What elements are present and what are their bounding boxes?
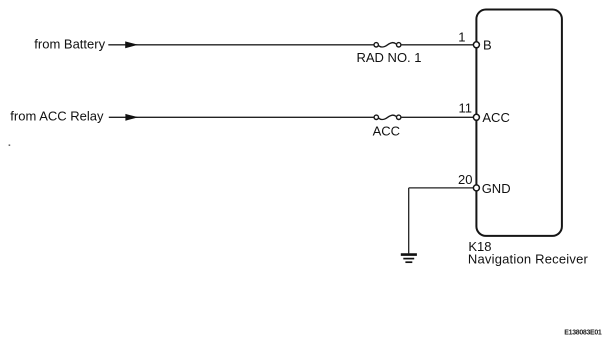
arrow: ACC current direction <box>125 114 138 121</box>
wire: fuse ACC to pin 11 <box>401 116 474 118</box>
svg-text:E138083E01: E138083E01 <box>564 330 602 337</box>
fuse RAD NO. 1 <box>374 43 401 47</box>
svg-text:Navigation Receiver: Navigation Receiver <box>468 252 589 267</box>
svg-text:from ACC Relay: from ACC Relay <box>10 108 104 123</box>
svg-text:11: 11 <box>459 100 473 115</box>
arrow: battery current direction <box>125 41 138 48</box>
svg-text:RAD NO. 1: RAD NO. 1 <box>357 50 422 65</box>
wire: battery feed to fuse <box>108 44 374 46</box>
svg-text:from Battery: from Battery <box>34 36 105 51</box>
svg-text:ACC: ACC <box>482 110 509 125</box>
svg-text:ACC: ACC <box>373 123 400 138</box>
ground symbol <box>401 255 417 263</box>
component box U1 K18 Navigation Receiver outline <box>476 10 562 236</box>
fuse ACC <box>374 115 401 119</box>
wire: ACC relay feed to fuse <box>109 116 374 118</box>
wire: fuse RAD NO. 1 to pin 1 <box>401 44 474 46</box>
pin 1 terminal circle <box>473 42 479 48</box>
svg-text:1: 1 <box>458 29 465 44</box>
scan speck <box>9 144 11 146</box>
svg-text:GND: GND <box>482 181 511 196</box>
svg-text:B: B <box>483 38 492 53</box>
wire: ground horizontal run from pin 20 <box>409 187 474 189</box>
wire: ground vertical drop <box>408 188 410 254</box>
svg-text:20: 20 <box>458 172 472 187</box>
pin 20 terminal circle <box>473 185 479 191</box>
pin 11 terminal circle <box>473 114 479 120</box>
